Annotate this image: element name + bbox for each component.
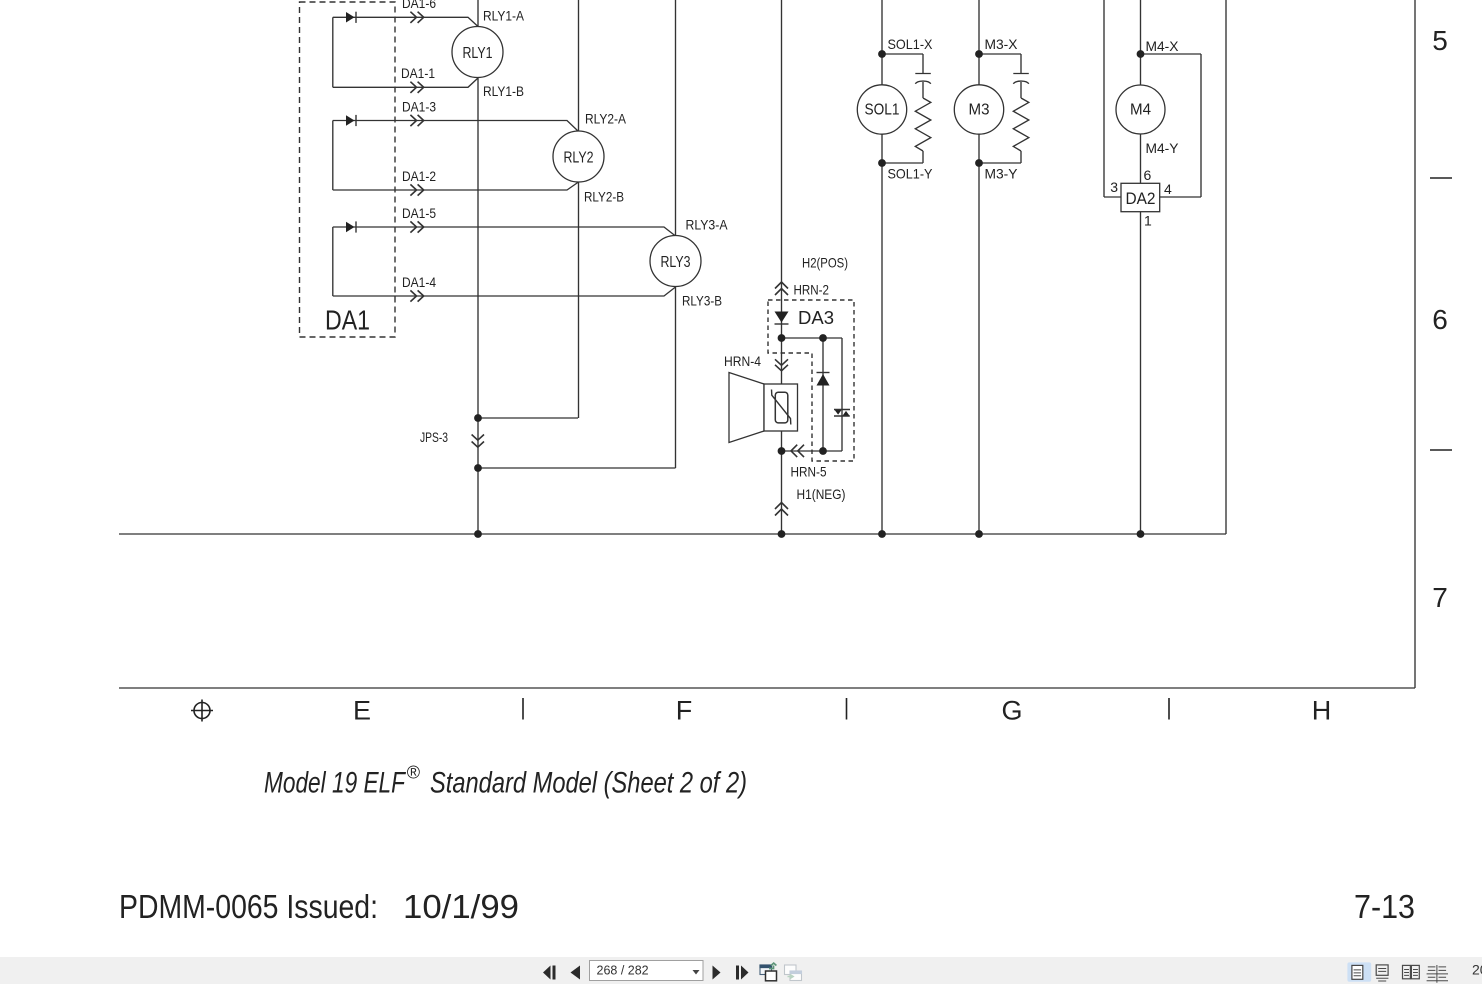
svg-text:DA3: DA3 bbox=[798, 307, 834, 328]
svg-text:H2(POS): H2(POS) bbox=[802, 255, 848, 271]
svg-text:268 / 282: 268 / 282 bbox=[597, 964, 649, 978]
svg-text:M3-X: M3-X bbox=[985, 36, 1019, 52]
svg-text:RLY1: RLY1 bbox=[463, 45, 493, 62]
svg-text:E: E bbox=[353, 696, 371, 726]
svg-text:7-13: 7-13 bbox=[1354, 888, 1415, 925]
svg-text:DA2: DA2 bbox=[1126, 189, 1156, 208]
svg-text:®: ® bbox=[407, 763, 421, 783]
svg-text:HRN-4: HRN-4 bbox=[724, 353, 761, 369]
svg-text:H1(NEG): H1(NEG) bbox=[797, 486, 846, 502]
svg-text:RLY3-B: RLY3-B bbox=[682, 293, 722, 309]
svg-text:G: G bbox=[1001, 696, 1022, 726]
svg-text:Standard Model (Sheet 2 of 2): Standard Model (Sheet 2 of 2) bbox=[430, 767, 747, 800]
svg-text:HRN-5: HRN-5 bbox=[791, 464, 827, 480]
svg-text:RLY1-B: RLY1-B bbox=[483, 83, 524, 99]
svg-text:DA1-1: DA1-1 bbox=[401, 65, 435, 81]
svg-text:DA1-4: DA1-4 bbox=[402, 274, 436, 290]
svg-text:RLY2: RLY2 bbox=[564, 150, 594, 167]
svg-text:F: F bbox=[676, 696, 693, 726]
svg-text:DA1-2: DA1-2 bbox=[402, 168, 436, 184]
svg-text:H: H bbox=[1312, 696, 1332, 726]
svg-text:SOL1-Y: SOL1-Y bbox=[888, 166, 934, 182]
svg-text:5: 5 bbox=[1432, 25, 1448, 56]
svg-text:DA1: DA1 bbox=[325, 305, 370, 336]
svg-text:M3-Y: M3-Y bbox=[985, 166, 1019, 182]
svg-text:6: 6 bbox=[1144, 167, 1152, 183]
svg-text:10/1/99: 10/1/99 bbox=[403, 888, 519, 925]
svg-text:M4: M4 bbox=[1130, 102, 1151, 119]
svg-text:DA1-3: DA1-3 bbox=[402, 99, 436, 115]
svg-text:RLY2-A: RLY2-A bbox=[585, 111, 627, 127]
svg-text:RLY2-B: RLY2-B bbox=[584, 189, 624, 205]
svg-text:M4-Y: M4-Y bbox=[1146, 140, 1180, 156]
svg-text:SOL1-X: SOL1-X bbox=[888, 36, 934, 52]
svg-text:DA1-5: DA1-5 bbox=[402, 205, 436, 221]
svg-text:20: 20 bbox=[1472, 962, 1482, 978]
svg-text:6: 6 bbox=[1432, 304, 1448, 335]
svg-text:3: 3 bbox=[1110, 179, 1118, 195]
svg-text:RLY3: RLY3 bbox=[661, 254, 691, 271]
svg-text:RLY1-A: RLY1-A bbox=[483, 8, 525, 24]
svg-text:PDMM-0065 Issued:: PDMM-0065 Issued: bbox=[119, 888, 378, 925]
svg-text:JPS-3: JPS-3 bbox=[420, 429, 448, 445]
svg-text:1: 1 bbox=[1144, 213, 1152, 229]
svg-text:M4-X: M4-X bbox=[1146, 38, 1180, 54]
svg-text:RLY3-A: RLY3-A bbox=[686, 217, 729, 233]
svg-text:HRN-2: HRN-2 bbox=[794, 282, 830, 298]
svg-text:M3: M3 bbox=[969, 102, 990, 119]
svg-text:4: 4 bbox=[1164, 181, 1172, 197]
svg-text:7: 7 bbox=[1432, 582, 1448, 613]
svg-text:Model 19 ELF: Model 19 ELF bbox=[264, 767, 406, 800]
svg-text:DA1-6: DA1-6 bbox=[402, 0, 436, 11]
svg-text:SOL1: SOL1 bbox=[865, 102, 900, 119]
